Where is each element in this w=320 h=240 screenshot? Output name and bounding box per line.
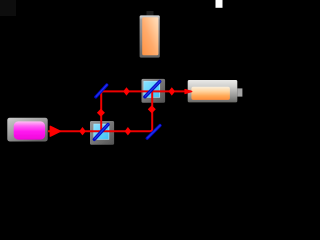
mirror M1 (top-left) (96, 85, 107, 97)
beam splitter BS1 diagonal (94, 125, 108, 140)
detector D1 (top) body (140, 15, 160, 57)
wire: upper path from BS1 up, corner at mirror M1, right through BS2 to detector D2 (101, 91, 191, 131)
detector D2 (right) body (188, 80, 238, 102)
arrow A5 on top segment (123, 87, 130, 95)
arrow A4 on left vertical segment (97, 109, 105, 117)
beam splitter BS2 diagonal (145, 82, 160, 97)
beam splitter BS1 gray square (90, 121, 114, 145)
mirror M2 (bottom-right) (147, 126, 160, 139)
detector D2 (right) tab (237, 88, 242, 96)
white UI fragment top-right (216, 0, 223, 8)
arrow A7 on output segment (169, 87, 176, 95)
beam splitter BS1 cyan square (94, 124, 109, 139)
laser body (gray) (7, 118, 47, 142)
arrow A6 on right vertical segment (148, 105, 156, 113)
laser (pink) (14, 121, 45, 139)
wire: input beam laser to BS1 and on to lower corner, up to BS2 (48, 91, 152, 131)
faint dark panel top-left (0, 0, 16, 16)
beam splitter BS2 gray square (142, 79, 166, 103)
arrow A8 beam end at detector D2 screen (185, 90, 192, 94)
arrow A1 (laser output, pointing right) (50, 126, 61, 136)
arrow A2 on input beam (79, 127, 86, 135)
arrow A3 on bottom segment (125, 127, 132, 135)
detector D2 (right) screen (191, 87, 230, 100)
detector D1 (top) screen (142, 17, 158, 55)
detector D1 (top) tab (147, 11, 154, 17)
beam splitter BS2 cyan square (144, 81, 160, 97)
